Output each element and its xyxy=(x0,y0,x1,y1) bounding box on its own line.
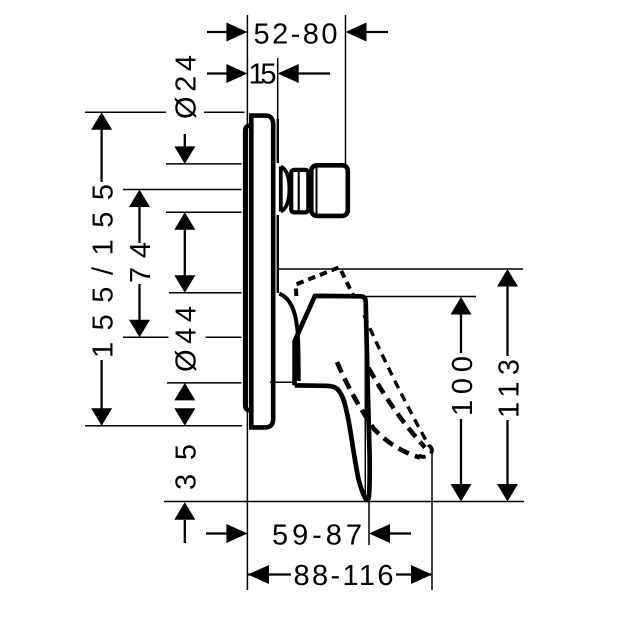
arrow 52-80 right xyxy=(346,23,367,42)
lever inner crease line xyxy=(364,304,366,496)
59-87 right extension line xyxy=(368,502,370,546)
arrow O24 bottom (up) xyxy=(174,212,195,230)
ext line spout bottom y=212.3 xyxy=(166,211,242,213)
arrow 52-80 left xyxy=(226,23,247,42)
wall flange of escutcheon xyxy=(245,126,257,411)
dim 88-116 line xyxy=(248,573,291,575)
ext line top of plate y=112 xyxy=(85,111,166,113)
ext line lever tip y=501.5 xyxy=(164,501,524,503)
cartridge and lever outline xyxy=(295,296,370,500)
arrow O24 top (down) xyxy=(174,146,195,164)
svg-text:15: 15 xyxy=(249,59,277,91)
dim 100 line xyxy=(460,314,462,353)
ext line dashed-corner y=269 xyxy=(278,268,524,270)
svg-text:Ø44: Ø44 xyxy=(171,306,203,372)
plate front face line upper xyxy=(277,119,279,163)
spout ring groove xyxy=(298,171,300,211)
spout cap inner line xyxy=(316,167,318,214)
dim 59-87 tails xyxy=(206,532,227,534)
dim 113 line xyxy=(506,286,508,356)
arrow 113 top xyxy=(497,269,518,287)
svg-text:59-87: 59-87 xyxy=(272,520,362,552)
svg-text:113: 113 xyxy=(494,359,526,418)
spout dome xyxy=(281,167,290,212)
dim 74 line xyxy=(138,206,140,243)
arrow 88-116 left xyxy=(248,565,269,584)
spout end cap xyxy=(311,165,348,216)
arrow 35 bottom (up) xyxy=(174,502,195,520)
arrow 35 top (down) xyxy=(174,408,195,426)
wall extension line xyxy=(246,15,248,590)
escutcheon plate (side view) xyxy=(251,116,273,428)
arrow 74 top xyxy=(129,190,150,208)
arrow O44 top (down) xyxy=(174,275,195,293)
arrow 113 bottom xyxy=(497,484,518,502)
arrow 59-87 right xyxy=(369,524,390,543)
88-116 right extension line xyxy=(431,449,433,590)
ext line cartridge top y=292.7 xyxy=(169,292,242,294)
cartridge collar line xyxy=(279,294,298,382)
arrow 59-87 left xyxy=(226,524,247,543)
ext line 74-bottom y=337.3 xyxy=(123,336,169,338)
ext line cartridge bottom y=382.9 xyxy=(167,382,242,384)
dim 155/155 line xyxy=(100,129,102,182)
dashed lever upper edge xyxy=(364,315,430,447)
plate front face line lower xyxy=(277,215,279,293)
dim 52-80 tails xyxy=(207,31,227,33)
arrow 100 top xyxy=(451,297,472,315)
ext line plate bottom y=425.7 xyxy=(85,425,242,427)
spout ring xyxy=(291,170,308,213)
arrow 74 bottom xyxy=(129,320,150,338)
arrow 100 bottom xyxy=(451,484,472,502)
arrow 155/155 top xyxy=(91,112,112,130)
dim O24 line xyxy=(184,134,186,147)
plate-front extension line xyxy=(277,58,279,160)
ext line spout top y=164 xyxy=(166,163,242,165)
arrow 88-116 right xyxy=(411,565,432,584)
dim 15 tails xyxy=(207,72,227,74)
ext line 74-top y=189.5 xyxy=(123,189,242,191)
arrow 15 left xyxy=(226,64,247,83)
dim 35 tail xyxy=(184,520,186,543)
dashed lever inner edge xyxy=(369,368,426,447)
svg-text:Ø24: Ø24 xyxy=(171,55,203,119)
svg-text:88-116: 88-116 xyxy=(294,560,394,592)
ext line handle top y=296.5 xyxy=(366,296,476,298)
arrow 155/155 bottom xyxy=(91,408,112,426)
cartridge contour line xyxy=(270,381,294,383)
svg-text:100: 100 xyxy=(447,356,479,416)
dashed handle cap (raised position) xyxy=(296,267,353,296)
arrow O44 bottom (up) xyxy=(174,383,195,401)
dashed lever lower edge xyxy=(337,362,420,458)
arrow 15 right xyxy=(278,64,299,83)
svg-text:52-80: 52-80 xyxy=(254,18,338,50)
dashed lever tip xyxy=(419,446,432,457)
spout-end extension line xyxy=(345,15,347,166)
